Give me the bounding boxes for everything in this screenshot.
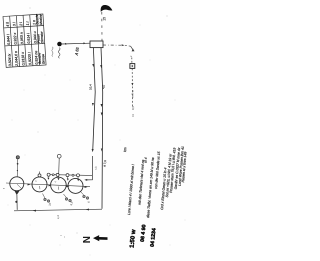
svg-text:4,0: 4,0 bbox=[102, 84, 106, 89]
big circle 4 bbox=[68, 178, 83, 193]
dash-dot line right of box bbox=[103, 44, 121, 46]
svg-text:0,944 u: 0,944 u bbox=[33, 31, 38, 43]
table header scribbles bbox=[35, 13, 46, 64]
triangle below circle1 bbox=[14, 191, 19, 195]
right long line bbox=[101, 48, 103, 209]
svg-text:N: N bbox=[82, 236, 93, 243]
svg-text:0,922 x: 0,922 x bbox=[13, 32, 18, 44]
svg-text:A 7,0: A 7,0 bbox=[103, 160, 108, 168]
svg-text:x,2: x,2 bbox=[56, 215, 60, 219]
svg-text:km: km bbox=[123, 147, 127, 152]
dashed drop line from hook bbox=[101, 12, 103, 41]
right handwriting block bbox=[123, 146, 188, 218]
north arrow bbox=[93, 235, 108, 241]
small circle above circle3 bbox=[57, 154, 61, 158]
small circle above circle2 bbox=[38, 174, 41, 177]
big circle 2 bbox=[32, 177, 47, 192]
sight line dot to box bbox=[62, 42, 90, 45]
svg-text:N: N bbox=[131, 114, 135, 116]
fittings below circles bbox=[44, 195, 89, 202]
L connector into circle 4 bbox=[87, 156, 93, 180]
svg-text:1 n: 1 n bbox=[32, 20, 36, 25]
svg-text:0,6: 0,6 bbox=[131, 106, 135, 110]
svg-text:0,9118 x: 0,9118 x bbox=[21, 52, 26, 66]
north-hook flag bbox=[101, 5, 113, 12]
svg-text:3 l: 3 l bbox=[12, 22, 16, 26]
valve square bbox=[130, 64, 135, 69]
svg-text:0,944 l: 0,944 l bbox=[6, 34, 11, 45]
scan specks bbox=[30, 8, 168, 238]
paper noise bbox=[8, 25, 186, 256]
lateral small-circle line bbox=[48, 174, 93, 177]
scribble under dot bbox=[58, 48, 60, 59]
circle cluster: baseline bbox=[6, 183, 90, 187]
ticks from lateral circles to big circles bbox=[47, 176, 49, 179]
svg-text:2 l: 2 l bbox=[19, 22, 23, 27]
big circle 1 bbox=[10, 177, 24, 191]
svg-text:10,4: 10,4 bbox=[89, 84, 93, 90]
svg-text:Mosknr: Mosknr bbox=[38, 13, 43, 25]
svg-text:m 5 w: m 5 w bbox=[131, 89, 135, 98]
corner diagonal arrow to down bbox=[131, 46, 133, 49]
svg-text:Obmstw: Obmstw bbox=[40, 31, 45, 44]
svg-text:1 l: 1 l bbox=[26, 21, 30, 25]
dashed to square bbox=[131, 58, 133, 64]
dashed below square bbox=[131, 69, 133, 109]
table row entries bbox=[6, 20, 39, 68]
stamp block bbox=[130, 224, 158, 248]
svg-text:4 ll: 4 ll bbox=[6, 22, 10, 27]
svg-text:z5: z5 bbox=[103, 17, 107, 21]
stem join wedges bbox=[47, 178, 79, 182]
measurement table bbox=[3, 14, 46, 67]
svg-text:ol 4: ol 4 bbox=[144, 157, 148, 163]
big circle 3 bbox=[51, 177, 67, 193]
small circle above circle1 bbox=[16, 156, 19, 159]
left long line bbox=[93, 48, 95, 149]
svg-text:0,824 lx: 0,824 lx bbox=[8, 53, 13, 66]
instrument box bbox=[90, 41, 103, 48]
svg-text:Gmsse: Gmsse bbox=[41, 54, 46, 65]
tiny text column along dashed line bbox=[131, 89, 135, 116]
station dot bbox=[57, 42, 62, 47]
bottom collector line bbox=[14, 209, 102, 211]
svg-text:0,914 l: 0,914 l bbox=[26, 33, 31, 44]
svg-text:0,950 n: 0,950 n bbox=[20, 32, 25, 44]
fitting stems bbox=[43, 192, 85, 199]
svg-text:0,9220 l: 0,9220 l bbox=[28, 52, 33, 65]
